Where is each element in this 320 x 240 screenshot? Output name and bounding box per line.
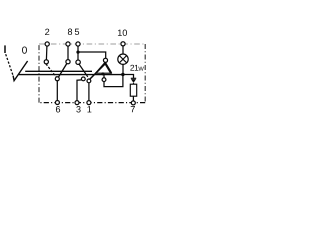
node junction 5 [76, 51, 79, 54]
enclosure border left [38, 44, 40, 103]
terminal 7 [131, 101, 135, 105]
contact circle 5 [76, 60, 80, 64]
resistor R1 [130, 84, 136, 96]
terminal 6 [55, 101, 59, 105]
wire diode to resistor [133, 83, 135, 84]
lamp L [118, 54, 128, 64]
wire terminal8 to contact [67, 46, 69, 60]
lever 3 [90, 64, 106, 80]
label 0 [22, 46, 27, 53]
label 3 [76, 106, 80, 112]
contact circle 1 [87, 79, 91, 83]
terminal 10 [121, 42, 125, 46]
rocker triangle right side thick [105, 63, 111, 73]
label 6 [56, 106, 60, 112]
lever 2 dashed alternate [46, 64, 56, 77]
label 10 [118, 30, 122, 36]
lever 2 solid [58, 63, 67, 77]
contact circle 8 [66, 60, 70, 64]
wire lamp down [122, 64, 124, 74]
wire contact 3 jog to terminal 3 [77, 80, 82, 101]
position 0 end stop tick [4, 45, 6, 53]
label 2 [45, 29, 49, 35]
terminal 2 [45, 42, 49, 46]
wire contact stem to bus [103, 75, 105, 78]
triangle top contact circle [103, 58, 107, 62]
label 5 [75, 29, 79, 35]
diode V1 [131, 77, 136, 79]
wire upper bus bar [25, 70, 92, 72]
wire resistor to terminal 7 [132, 96, 134, 101]
enclosure border right [144, 44, 146, 103]
contact circle 3 [81, 77, 85, 81]
label 1 [87, 106, 91, 112]
lever diagonal A (5 to 1 bridge) [79, 64, 88, 77]
label 8 [68, 29, 72, 35]
terminal 8 [66, 42, 70, 46]
rocker triangle [96, 63, 112, 74]
terminal 5 [76, 42, 80, 46]
label lamp wattage 21W [130, 65, 134, 71]
wire lower bus bar [18, 74, 123, 76]
wire terminal10 to lamp [122, 46, 124, 54]
wire pivot to terminal 6 [56, 81, 58, 101]
wire terminal2 to contact [45, 46, 48, 60]
wire 5 to triangle top [78, 52, 106, 58]
wire L-path junction to contact [104, 75, 123, 87]
wire contact to terminal 1 [88, 83, 90, 101]
terminal 3 [75, 101, 79, 105]
lever 1 solid [13, 61, 28, 81]
wire terminal5 down [77, 46, 79, 60]
node lamp junction [121, 73, 124, 76]
enclosure border bottom [39, 102, 145, 104]
wire bus to diode branch [123, 75, 134, 79]
terminal 1 [87, 101, 91, 105]
contact circle below triangle [102, 78, 106, 82]
enclosure border top [39, 43, 145, 45]
pivot contact circle 6 [55, 77, 59, 81]
lever 1 dashed alternate [6, 54, 13, 75]
label 7 [131, 106, 135, 112]
node bus under triangle [101, 72, 104, 75]
contact circle 2 [44, 60, 48, 64]
